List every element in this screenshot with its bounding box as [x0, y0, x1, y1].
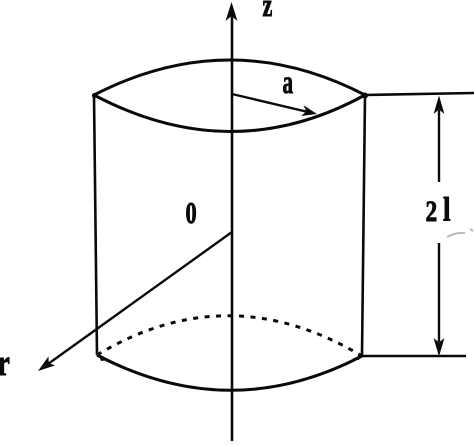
z-axis arrowhead: [226, 2, 238, 21]
cylinder left edge: [94, 95, 97, 355]
junction blob bottom-right vertex: [352, 355, 361, 360]
svg-text:z: z: [263, 0, 273, 24]
r-axis arrowhead: [38, 356, 55, 371]
dimension upper arrowhead: [434, 96, 445, 115]
svg-text:r: r: [0, 343, 10, 384]
radius arrowhead: [301, 105, 317, 116]
cylinder right edge: [362, 95, 365, 355]
svg-text:2: 2: [426, 194, 438, 227]
svg-text:a: a: [283, 63, 294, 100]
svg-text:l: l: [443, 191, 451, 229]
dimension extension line top: [365, 93, 474, 95]
bottom face back dashed arc: [97, 316, 362, 356]
top face upper arc: [94, 60, 365, 95]
junction blob top-right vertex: [362, 93, 368, 99]
top face lower arc: [94, 95, 365, 132]
bottom face front arc: [97, 355, 362, 390]
faint smudge mark: [447, 229, 473, 237]
r-axis shaft: [48, 232, 232, 364]
svg-text:0: 0: [186, 195, 197, 229]
dimension line lower segment: [438, 243, 440, 342]
dimension lower arrowhead: [434, 338, 445, 357]
junction blob top-left vertex: [92, 93, 97, 98]
radius arrow shaft: [232, 94, 308, 112]
junction blob bottom-left vertex: [99, 356, 109, 361]
dimension extension line bottom: [358, 355, 466, 358]
label 2l: [426, 191, 451, 229]
dimension line upper segment: [438, 110, 440, 182]
z-axis shaft: [231, 14, 234, 441]
